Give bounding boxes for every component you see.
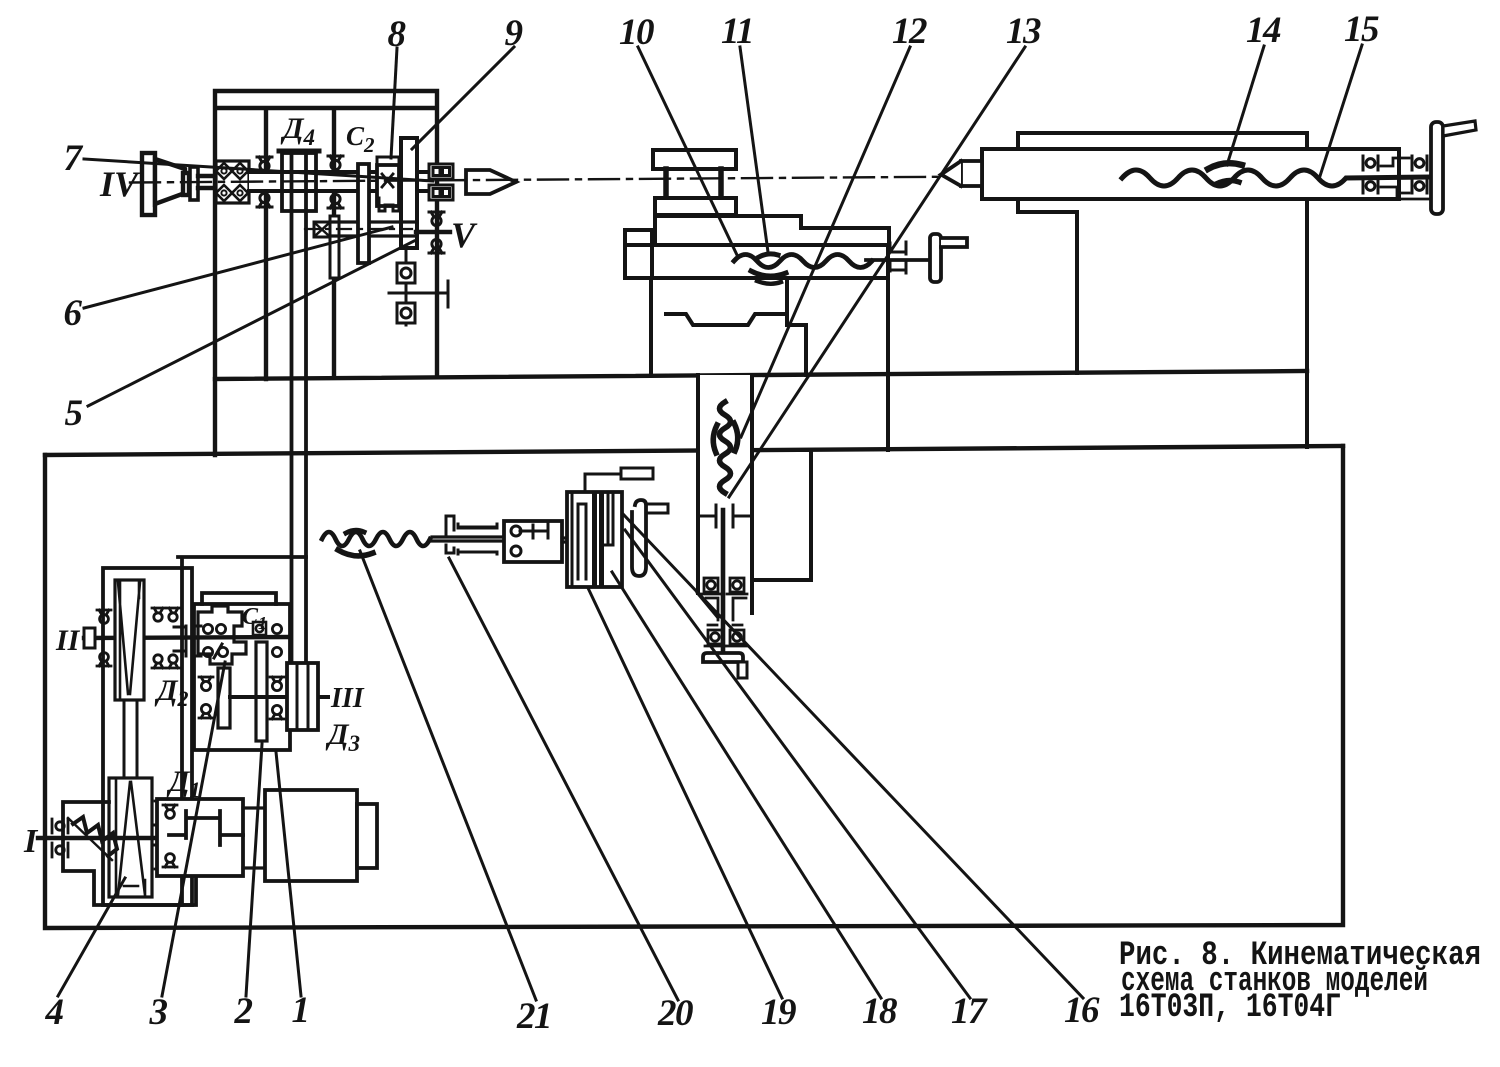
svg-text:I: I — [23, 823, 39, 860]
shaft IV left stub — [198, 176, 218, 188]
svg-text:12: 12 — [892, 11, 927, 52]
leader 1 — [276, 752, 301, 996]
quill with centre — [941, 161, 982, 186]
feed drive vertical shaft from V — [405, 248, 408, 325]
svg-text:V: V — [451, 215, 478, 255]
foot tab — [738, 662, 747, 678]
pulley D4 top cap — [279, 149, 319, 154]
feed rod nut arc lower — [338, 550, 373, 556]
headstock housing — [215, 91, 437, 455]
screw bearing |o| lower-left — [1363, 179, 1378, 193]
shaft I bearing |o| upper — [52, 819, 68, 833]
leader 3 — [162, 662, 225, 996]
label D2 — [154, 674, 189, 711]
cross-feed screw (wavy) — [734, 255, 872, 268]
svg-text:3: 3 — [149, 992, 168, 1033]
label D3 — [325, 718, 360, 756]
leader 11 — [740, 47, 768, 252]
saddle body — [629, 245, 888, 278]
vertical feed shaft — [721, 510, 726, 653]
gearbox C1 box — [194, 604, 290, 750]
tool post columns — [666, 169, 721, 198]
bearing (hat-circle) II right lower 2 — [167, 655, 180, 668]
leader 13 — [729, 47, 1025, 497]
bearing (hat-circle) II right upper — [152, 608, 165, 621]
C1 fork tick — [214, 644, 222, 658]
svg-text:8: 8 — [388, 14, 406, 55]
top slide — [655, 198, 736, 215]
clutch C2 top cap — [377, 157, 399, 165]
jaw coupling — [169, 811, 243, 845]
svg-text:21: 21 — [516, 996, 551, 1037]
carriage clamp plate right — [886, 278, 890, 450]
bearing III left upper — [199, 677, 213, 691]
side box right of column — [752, 450, 811, 580]
svg-text:Д4: Д4 — [280, 112, 315, 150]
svg-text:17: 17 — [951, 991, 988, 1032]
svg-text:4: 4 — [45, 992, 64, 1033]
svg-text:16Т03П, 16Т04Г: 16Т03П, 16Т04Г — [1119, 989, 1341, 1027]
clutch release lever top — [585, 474, 621, 492]
dead centre in spindle — [466, 170, 516, 194]
svg-text:16: 16 — [1064, 990, 1100, 1031]
handwheel crank arm — [1443, 121, 1476, 136]
spindle front roller bearing lower — [429, 185, 453, 200]
bearing (hat-circle) on IV mid upper — [328, 156, 343, 170]
leader 6 — [84, 227, 392, 308]
svg-text:III: III — [330, 683, 365, 714]
leader 12 — [741, 47, 910, 437]
big lower box — [45, 446, 1343, 928]
svg-text:IV: IV — [99, 164, 141, 204]
bearing (hat-circle) I right lower — [155, 856, 169, 869]
shaft II hub blocks — [174, 626, 201, 656]
spindle front roller bearing upper — [429, 164, 453, 179]
shaft collar brackets — [706, 598, 746, 625]
svg-text:1: 1 — [292, 990, 309, 1031]
C1 gear bar right — [256, 642, 267, 741]
motor connection lines — [243, 808, 265, 868]
screw bearing |o| upper-right — [1412, 156, 1427, 170]
svg-text:15: 15 — [1344, 9, 1379, 50]
worm wheel arc left — [713, 425, 717, 453]
apron column — [698, 375, 752, 617]
shaft I bearing |o| lower — [52, 843, 68, 857]
clutch C2 disc — [358, 164, 369, 263]
svg-text:7: 7 — [64, 138, 84, 179]
C1 boxed circle — [253, 622, 266, 635]
label V — [451, 215, 478, 255]
tailstock nut arc bottom — [1216, 180, 1239, 184]
svg-text:19: 19 — [761, 992, 796, 1033]
tailstock body — [982, 149, 1399, 199]
C1 gear bar left — [218, 668, 230, 728]
screw bearing |o| upper-left — [1363, 156, 1378, 170]
bearing (hat-circle) on IV mid lower — [328, 194, 343, 208]
lathe bed top line — [215, 371, 1307, 379]
cross-feed nut lower arc — [751, 271, 786, 276]
joint pin upper — [511, 526, 521, 536]
variator pulley D2 — [115, 580, 144, 700]
worm wheel arc right — [734, 423, 738, 451]
cone pulley body — [155, 159, 185, 204]
electric motor body — [265, 790, 357, 881]
shaft V centreline — [305, 228, 412, 230]
leader 18 — [612, 572, 881, 998]
belt from D4 down to D3 — [292, 155, 307, 663]
leader 19 — [588, 588, 782, 998]
shaft II — [84, 637, 288, 638]
svg-text:С2: С2 — [346, 121, 375, 157]
hook lever handle — [646, 504, 668, 513]
joint cross ticks — [520, 524, 548, 538]
leader 10 — [638, 47, 737, 255]
telescopic sleeve lower — [446, 545, 497, 554]
label IV — [99, 164, 141, 204]
gearbox cap — [202, 593, 276, 604]
spindle nose shaft — [417, 172, 430, 191]
shaft II left end block — [84, 628, 95, 648]
svg-text:5: 5 — [65, 393, 83, 434]
apron clutch pack outer — [567, 492, 622, 587]
svg-text:14: 14 — [1246, 10, 1281, 51]
screw end bracket — [890, 242, 906, 273]
tailstock top step — [1018, 133, 1307, 149]
leader 5 — [88, 241, 414, 406]
hook lever (U-shape) — [632, 500, 646, 576]
handwheel bar — [1431, 122, 1443, 214]
clutch C2 sliding block with cross — [377, 165, 399, 206]
svg-text:10: 10 — [619, 12, 654, 53]
shaft V sleeve — [330, 222, 416, 236]
bearing III right upper — [270, 677, 284, 691]
clutch pack inner plates — [572, 493, 613, 586]
tailstock bottom step — [1018, 199, 1077, 212]
clutch C2 claw — [379, 198, 399, 211]
leader 9 — [412, 47, 514, 149]
label II — [55, 624, 81, 657]
saddle left cap — [625, 230, 652, 278]
svg-text:С1: С1 — [242, 604, 267, 633]
leader 16 — [623, 514, 1083, 998]
bearing (hat-circle) on V right upper — [429, 212, 444, 226]
telescopic shaft — [432, 537, 504, 541]
svg-text:11: 11 — [721, 11, 753, 52]
cross slide block — [655, 216, 889, 245]
feed drive bearing box upper — [397, 263, 415, 283]
lower bearing right (box+circle) — [727, 630, 747, 646]
cone pulley flange on shaft IV — [142, 153, 155, 215]
apron body below saddle — [651, 278, 806, 375]
gear mesh line on feed drive — [389, 281, 448, 307]
joint output stub — [562, 538, 570, 542]
shaft III — [230, 695, 328, 699]
upper bearing left (box+circle) — [701, 578, 721, 594]
motor end cap — [357, 804, 377, 868]
cross-feed nut lower arc 2 — [757, 281, 781, 284]
bearing (hat-circle) II left lower — [97, 653, 111, 666]
label III — [330, 683, 365, 714]
bearing (hat-circle) pump lower — [163, 854, 177, 867]
pump bracket outline — [63, 802, 196, 905]
shaft V cross-box bearing — [314, 222, 330, 237]
tailstock nut arc top — [1208, 163, 1242, 169]
leader 20 — [449, 558, 678, 1000]
universal joint housing — [504, 521, 562, 562]
joint pin lower — [511, 546, 521, 556]
foot plate — [703, 653, 743, 662]
label C1 — [242, 604, 267, 633]
svg-text:20: 20 — [657, 993, 693, 1034]
cone pulley hub 2 — [190, 167, 198, 200]
leader 8 — [391, 48, 397, 158]
clutch C1 stepped body — [198, 606, 246, 664]
bearing (hat-circle) on IV left lower — [257, 193, 272, 207]
pulley housing box — [103, 568, 192, 905]
vertical worm shaft (wavy) — [720, 402, 731, 493]
bearing III left lower — [199, 704, 213, 718]
leader 4 — [58, 878, 125, 996]
lathe bed lower line / big box top — [45, 446, 1343, 455]
spindle centreline (dash-dot) — [130, 176, 1122, 183]
crank handle arm — [941, 238, 967, 247]
leader 17 — [625, 530, 970, 998]
upper bearing right (box+circle) — [727, 578, 747, 594]
telescopic sleeve upper — [446, 516, 497, 534]
pulley D4 body — [282, 153, 316, 211]
svg-text:9: 9 — [505, 13, 523, 54]
tension spring — [73, 817, 117, 856]
shaft I hub blocks — [152, 815, 169, 848]
svg-text:2: 2 — [234, 991, 253, 1032]
leader 2 — [246, 744, 262, 996]
spring rod — [68, 818, 112, 860]
tailstock screw (wavy) — [1122, 170, 1428, 186]
svg-text:13: 13 — [1006, 11, 1041, 52]
feed drive bearing box lower — [397, 303, 415, 323]
tool post cap — [653, 150, 736, 169]
shaft V right stub — [416, 230, 450, 234]
gearbox housing top — [178, 557, 306, 905]
belt between D1 and D2 — [124, 700, 137, 778]
svg-text:II: II — [55, 624, 81, 657]
bearing (hat-circle) II right upper 2 — [167, 608, 180, 621]
tailstock base pillar — [1077, 133, 1307, 447]
front bearing block with cross-rollers — [216, 161, 249, 203]
lower bearing left (box+circle) — [705, 630, 725, 646]
shaft V gear (back gear) — [330, 216, 339, 278]
pump block — [157, 799, 243, 876]
label I — [23, 823, 39, 860]
bearing (hat-circle) II right lower — [152, 655, 165, 668]
variator pulley D1 — [109, 778, 152, 897]
crank handle bar — [930, 234, 941, 282]
bearing (hat-circle) on IV left upper — [257, 157, 272, 171]
screw bearing |o| lower-right — [1412, 179, 1427, 193]
leader 15 — [1320, 45, 1362, 176]
bevel gear mesh — [698, 505, 752, 527]
label C2 — [346, 121, 375, 157]
svg-text:Д3: Д3 — [325, 718, 360, 756]
bearing III right lower — [270, 705, 284, 719]
leader 21 — [360, 551, 536, 1000]
label D4 — [280, 112, 315, 150]
label D1 — [166, 765, 201, 802]
bearing (hat-circle) on V right lower — [429, 239, 444, 253]
bull gear (8/9) — [401, 138, 417, 248]
pulley D3 — [287, 663, 318, 730]
screw extension to crank — [866, 258, 931, 262]
cross-feed nut upper arc — [759, 254, 778, 257]
lever handle block — [621, 468, 653, 479]
leader 14 — [1227, 46, 1264, 165]
bearing (hat-circle) II left upper — [97, 610, 111, 623]
svg-text:6: 6 — [64, 293, 83, 334]
bearing (hat-circle) I right upper — [155, 801, 169, 814]
feed rod (wavy) — [322, 532, 430, 546]
bearing (hat-circle) pump upper — [163, 805, 177, 818]
svg-text:18: 18 — [862, 991, 897, 1032]
bearing step lines — [1381, 158, 1430, 199]
svg-text:Д1: Д1 — [166, 765, 201, 802]
feed rod nut arc upper — [346, 530, 364, 533]
leader 7 — [84, 159, 433, 181]
cone pulley hub — [183, 173, 189, 195]
shaft I — [38, 836, 168, 840]
C1 circles row1 — [203, 624, 281, 633]
spindle shaft IV body — [249, 172, 435, 191]
C1 circles row2 — [203, 647, 281, 656]
